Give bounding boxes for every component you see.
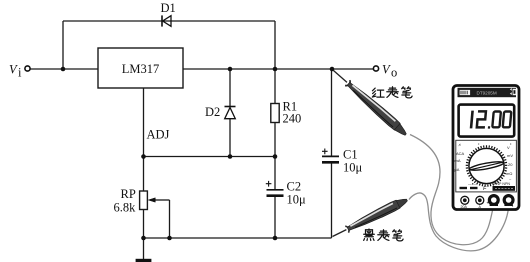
wire D2 branch upper	[229, 69, 231, 106]
svg-text:C2: C2	[287, 180, 302, 194]
node ground-left junction	[141, 236, 146, 241]
multimeter plug COM	[504, 196, 514, 208]
svg-text:D2: D2	[205, 105, 220, 119]
wire right vertical top to output line	[274, 21, 276, 69]
svg-text:C1: C1	[343, 148, 358, 162]
node output junction	[330, 67, 335, 72]
wire C1 branch upper	[331, 69, 333, 156]
wire RP to ground node	[143, 210, 145, 239]
svg-text:mΩ: mΩ	[506, 171, 512, 176]
multimeter dial panel	[456, 140, 517, 192]
diode D1	[162, 15, 171, 26]
svg-text:10μ: 10μ	[343, 161, 363, 175]
node R1 top junction	[273, 67, 278, 72]
wire C2 branch upper	[274, 157, 276, 190]
wire RP wiper to bottom	[169, 200, 171, 238]
svg-text:ADJ: ADJ	[147, 128, 170, 142]
multimeter plug VOhm	[487, 196, 499, 207]
svg-text:DT9205M: DT9205M	[477, 91, 497, 96]
multimeter jack A	[476, 196, 484, 209]
svg-text:240: 240	[283, 112, 302, 126]
multimeter jack 20A	[461, 196, 469, 209]
label black probe	[364, 229, 375, 241]
black test probe	[330, 195, 409, 240]
wire ADJ vertical from LM317	[143, 88, 145, 157]
wire C2 branch lower	[274, 197, 276, 239]
wire bottom horizontal	[144, 237, 332, 239]
regulator U1 LM317 box	[98, 48, 183, 88]
multimeter body	[453, 86, 519, 210]
wire LM317 output to Vo terminal	[183, 68, 373, 70]
label red probe	[372, 88, 384, 97]
wire left vertical from input node up	[62, 21, 64, 69]
potentiometer RP wiper arrow	[148, 198, 169, 202]
multimeter LCD	[459, 105, 515, 137]
node D2 top junction	[228, 67, 233, 72]
multimeter dial labels	[455, 141, 514, 182]
svg-text:♬: ♬	[458, 142, 462, 147]
wire input to LM317	[31, 68, 99, 70]
node input junction	[61, 67, 66, 72]
svg-text:LM317: LM317	[122, 62, 160, 76]
resistor R1	[271, 104, 279, 123]
ground	[136, 259, 152, 262]
multimeter dial knob	[469, 148, 504, 183]
node ADJ junction	[141, 154, 146, 159]
black probe cable	[409, 193, 509, 251]
svg-text:ACA: ACA	[456, 151, 465, 156]
wire R1 branch upper	[274, 69, 276, 104]
terminal Vo	[373, 66, 378, 71]
wire ADJ node to RP	[143, 157, 145, 192]
capacitor C1	[322, 149, 339, 163]
svg-text:RP: RP	[121, 187, 136, 201]
svg-text:i: i	[18, 66, 22, 80]
svg-text:20A: 20A	[461, 205, 468, 209]
svg-text:μA: μA	[455, 167, 460, 172]
wire top horizontal	[63, 20, 275, 22]
node C2 bottom junction	[273, 236, 278, 241]
node D2 bottom junction	[228, 154, 233, 159]
node RP wiper bottom junction	[167, 236, 172, 241]
wire R1 branch lower	[274, 123, 276, 157]
svg-text:mV: mV	[507, 153, 513, 158]
svg-text:6.8k: 6.8k	[114, 201, 137, 215]
svg-text:PNP NPN: PNP NPN	[494, 182, 510, 186]
multimeter function row	[460, 182, 516, 192]
svg-text:20: 20	[508, 162, 513, 167]
svg-text:—●—: —●—	[468, 182, 478, 186]
svg-text:o: o	[391, 66, 397, 80]
multimeter header bar	[458, 88, 517, 97]
terminal Vi	[25, 66, 30, 71]
multimeter dial tick ring	[466, 145, 508, 187]
svg-text:mA: mA	[455, 158, 461, 163]
node C2 top junction	[273, 154, 278, 159]
potentiometer RP	[140, 191, 148, 210]
wire ground stem	[143, 238, 145, 259]
svg-text:10μ: 10μ	[287, 193, 307, 207]
wire ADJ horizontal	[144, 156, 276, 158]
red probe cable	[410, 135, 493, 245]
wire D2 branch lower	[229, 119, 231, 157]
capacitor C2	[266, 181, 284, 196]
diode D2	[225, 107, 236, 119]
wire C1 branch lower	[331, 164, 333, 239]
svg-text:D1: D1	[161, 1, 176, 15]
red test probe	[330, 67, 409, 138]
